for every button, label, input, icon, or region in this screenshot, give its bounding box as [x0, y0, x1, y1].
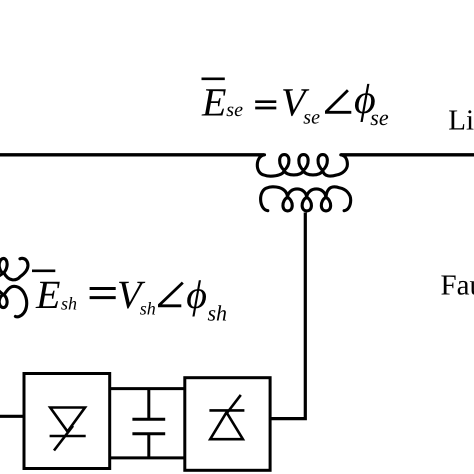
converter VSC1 box: [24, 374, 110, 469]
svg-text:sh: sh: [208, 301, 228, 326]
equals sign in E-sh label: [90, 289, 116, 298]
wire from secondary center tap down and left into VSC2: [271, 213, 306, 419]
svg-text:Line: Line: [448, 105, 474, 137]
angle symbol in E-sh label: [159, 283, 182, 306]
overline of E-sh: [32, 269, 55, 272]
equals sign in E-se label: [255, 102, 276, 108]
wire transmission line right segment: [341, 153, 474, 156]
transformer T-se secondary winding: [261, 187, 351, 211]
dc link top rail: [110, 387, 185, 390]
wire transmission line left segment: [0, 153, 264, 156]
thyristor symbol in VSC1: [50, 408, 86, 451]
svg-text:se: se: [370, 105, 389, 130]
dc link bottom rail: [110, 456, 185, 459]
dc capacitor C: [132, 389, 165, 458]
overline of E-se: [202, 77, 225, 80]
svg-text:Fault: Fault: [441, 270, 474, 302]
converter VSC2 box: [185, 378, 270, 471]
transformer T-se primary winding: [257, 155, 347, 176]
transformer T-sh shunt primary winding (partial at left edge): [0, 258, 28, 280]
transformer T-sh shunt secondary winding (partial at left edge): [0, 286, 27, 317]
thyristor symbol in VSC2: [209, 395, 244, 439]
wire into VSC1 from left edge: [0, 415, 24, 418]
angle symbol in E-se label: [326, 90, 351, 112]
